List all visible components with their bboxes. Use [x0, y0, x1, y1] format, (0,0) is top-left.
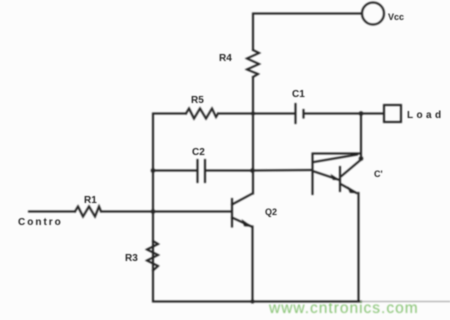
svg-text:C': C' — [374, 169, 383, 179]
resistor R4 — [247, 50, 259, 77]
wire C2 to center rail — [205, 170, 253, 172]
node R1 — [151, 209, 156, 214]
wire node to load box — [361, 113, 384, 115]
svg-text:R4: R4 — [219, 53, 232, 64]
node darlington collector — [359, 156, 364, 161]
capacitor C2 — [198, 160, 206, 182]
wire R1 to Q2 base — [101, 211, 232, 213]
wire top rail — [253, 14, 362, 51]
svg-text:www.cntronics.com: www.cntronics.com — [268, 300, 419, 317]
bottom rail — [153, 301, 361, 303]
bottom faint line to edge — [361, 301, 450, 303]
svg-text:C1: C1 — [292, 89, 305, 100]
wire C2 row left — [153, 170, 198, 172]
svg-text:R1: R1 — [84, 195, 97, 206]
node C2 right — [250, 168, 255, 173]
svg-text:Q2: Q2 — [265, 207, 277, 217]
wire contro lead — [29, 211, 75, 213]
node bottom — [251, 300, 255, 304]
wire center rail to darlington base — [253, 169, 313, 172]
svg-text:R5: R5 — [191, 95, 204, 106]
svg-text:Contro: Contro — [18, 217, 63, 228]
node R4/R5/C1 — [251, 112, 255, 116]
wire C1 to load node — [304, 113, 362, 115]
svg-text:C2: C2 — [192, 147, 205, 158]
resistor R5 — [186, 109, 218, 119]
transistor Q2 — [232, 194, 253, 227]
darlington pair Q1 — [313, 154, 362, 302]
resistor R1 — [75, 207, 101, 217]
svg-text:Load: Load — [407, 110, 445, 121]
resistor R3 — [147, 241, 158, 271]
node C2 left — [151, 168, 156, 173]
wire node down to darlington collector — [360, 114, 362, 159]
wire Q2 emitter down — [252, 227, 254, 302]
wire R5 row left corner — [153, 113, 186, 115]
wire center rail upper — [252, 77, 254, 114]
load box — [384, 105, 401, 122]
Vcc source circle — [362, 3, 384, 25]
wire center rail mid — [252, 114, 254, 171]
left rail — [152, 114, 154, 302]
capacitor C1 — [296, 104, 304, 123]
wire R5 to C1 — [218, 113, 295, 115]
wire center rail to Q2 collector — [252, 171, 254, 194]
svg-text:R3: R3 — [125, 253, 138, 264]
svg-text:Vcc: Vcc — [388, 12, 404, 22]
node load — [359, 111, 364, 116]
